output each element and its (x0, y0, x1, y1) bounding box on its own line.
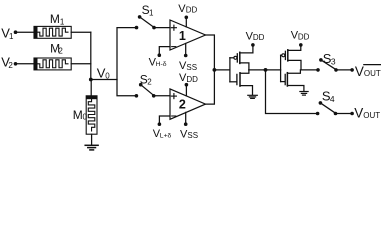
svg-text:M: M (50, 12, 60, 26)
svg-text:L+δ: L+δ (160, 133, 172, 140)
svg-text:M: M (73, 108, 83, 122)
svg-text:1: 1 (149, 8, 154, 17)
svg-text:H-δ: H-δ (156, 61, 167, 68)
svg-text:2: 2 (58, 47, 63, 56)
svg-text:3: 3 (331, 57, 336, 67)
svg-text:V: V (355, 64, 364, 79)
svg-text:2: 2 (8, 61, 13, 70)
svg-text:0: 0 (83, 112, 88, 121)
svg-text:OUT: OUT (363, 111, 380, 120)
svg-text:V: V (354, 106, 363, 121)
svg-text:DD: DD (186, 75, 198, 84)
svg-text:1: 1 (179, 29, 186, 43)
svg-text:SS: SS (186, 63, 197, 72)
svg-text:OUT: OUT (364, 69, 381, 78)
svg-text:SS: SS (187, 131, 198, 140)
svg-text:1: 1 (60, 17, 65, 26)
svg-text:1: 1 (9, 32, 14, 41)
svg-text:2: 2 (147, 78, 152, 87)
svg-text:DD: DD (253, 33, 265, 42)
svg-text:2: 2 (179, 98, 186, 112)
svg-text:DD: DD (298, 32, 310, 41)
svg-text:DD: DD (186, 6, 198, 15)
svg-text:4: 4 (330, 94, 335, 104)
svg-text:0: 0 (105, 72, 110, 81)
